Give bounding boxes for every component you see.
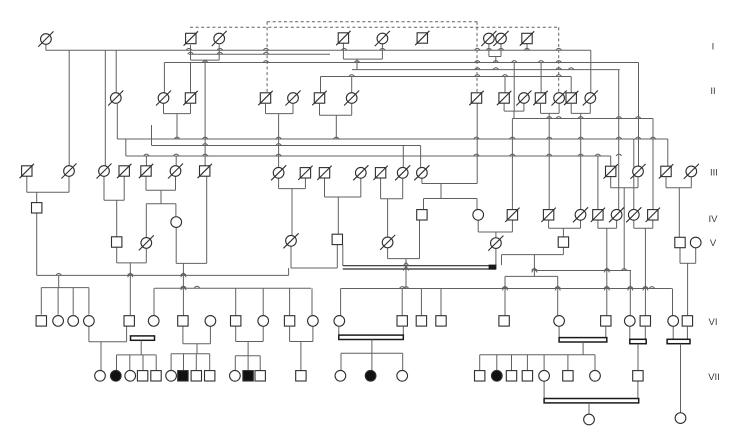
- wire feed IV-8: [597, 156, 599, 209]
- person VI-15: [416, 316, 426, 326]
- label generation V: [710, 238, 717, 249]
- wire consang bar VII-21 x VII-24: [544, 381, 639, 414]
- person VI-3: [68, 316, 79, 327]
- person VI-2: [53, 316, 64, 327]
- person VII-19: [506, 371, 516, 381]
- person II-12 deceased: [552, 91, 567, 106]
- wire couple VI-7 x VI-8: [183, 326, 211, 354]
- wire couple IV-4 x IV-5: [478, 220, 512, 237]
- person II-1 deceased: [108, 91, 123, 106]
- wire dashed drop to II-12: [558, 27, 560, 92]
- person VII-22: [563, 371, 573, 381]
- wire bus B7: [117, 104, 668, 166]
- person IV-3 male: [417, 210, 427, 220]
- wire couple V-6 x V-7: [502, 248, 564, 277]
- person IV-1 male: [32, 203, 42, 213]
- person VII-17: [475, 371, 485, 381]
- person VII-18 affected: [491, 370, 502, 381]
- wire sibship VI-7/8 children: [171, 354, 210, 371]
- person VIII-2 female: [675, 413, 686, 424]
- wire dashed link top B: [267, 21, 477, 23]
- person IV-6 deceased: [541, 208, 555, 222]
- person III-18 deceased: [684, 164, 699, 179]
- wire bus B3: [164, 61, 638, 166]
- person VI-19: [601, 316, 611, 326]
- person IV-7 deceased: [573, 207, 588, 222]
- wire feed couple II-9/10 junction: [513, 63, 515, 112]
- wire sibship VI-18/19 children: [480, 355, 595, 371]
- person III-17 deceased: [659, 164, 673, 178]
- wire couple II-11 x II-12: [541, 104, 560, 210]
- person V-6 deceased female: [488, 236, 503, 251]
- person II-10 deceased: [516, 91, 531, 106]
- person II-2 deceased: [156, 91, 171, 106]
- person VI-4: [84, 316, 95, 327]
- wire bus BL: [37, 274, 289, 276]
- person VII-5: [151, 371, 161, 381]
- wire II-8 descent: [476, 104, 478, 184]
- wire bus B6: [512, 117, 653, 210]
- person VI-14: [397, 316, 407, 326]
- person III-13 deceased: [395, 165, 410, 180]
- svg-text:VII: VII: [708, 372, 720, 383]
- person IV-10 deceased: [626, 207, 641, 222]
- person IV-4 female: [473, 209, 484, 220]
- person VII-15 affected: [365, 370, 376, 381]
- person III-8 deceased: [271, 165, 286, 180]
- person III-10 deceased: [317, 166, 331, 180]
- wire couple II-9 x II-10: [504, 104, 524, 119]
- person VII-21: [539, 370, 550, 381]
- person VII-12: [255, 371, 265, 381]
- wire couple II-13 x II-14: [571, 104, 590, 210]
- person VII-16: [397, 370, 408, 381]
- person V-9 female: [690, 237, 701, 248]
- person II-7 deceased: [344, 91, 359, 106]
- wire couple III-3 x III-4: [104, 177, 124, 237]
- wire couple III-8 x III-9: [279, 178, 306, 235]
- wire dashed link top A: [190, 26, 559, 28]
- wire couple I-7 x I-8: [489, 44, 501, 63]
- wire I-9 drop: [526, 44, 528, 50]
- svg-text:IV: IV: [709, 214, 719, 225]
- person II-14 deceased: [583, 91, 598, 106]
- wire feed VI-14: [401, 289, 403, 316]
- wire bus B9: [126, 139, 622, 166]
- person II-5 deceased: [285, 91, 300, 106]
- person I-3 deceased female: [212, 31, 227, 46]
- person V-8 male: [675, 237, 685, 247]
- person VII-3: [125, 370, 136, 381]
- person I-4 deceased male: [336, 31, 350, 45]
- wire feed III-2: [68, 50, 70, 166]
- person II-11 deceased: [533, 91, 547, 105]
- person IV-8 deceased: [591, 208, 605, 222]
- wire couple IV-2 x III-7: [176, 177, 207, 316]
- wire feed III-5: [145, 156, 147, 166]
- wire couple III-15 x III-16: [611, 177, 638, 271]
- wire bus BM1: [154, 286, 312, 315]
- wire bus B1: [46, 45, 591, 93]
- wire couple II-6 x II-7: [320, 104, 352, 139]
- person VII-11 affected: [243, 371, 253, 381]
- person VI-6: [148, 316, 159, 327]
- wire bus B2: [188, 52, 330, 54]
- person II-8 deceased: [469, 91, 483, 105]
- person VI-10: [258, 316, 269, 327]
- wire sibship V-6/7 children: [502, 276, 560, 315]
- person VII-2 affected: [110, 370, 121, 381]
- person VII-6: [166, 370, 177, 381]
- wire bus B8: [152, 125, 421, 167]
- person III-9 deceased: [298, 166, 312, 180]
- person VI-20: [624, 316, 635, 327]
- person III-16 deceased: [630, 164, 645, 179]
- person VII-7 affected: [178, 371, 188, 381]
- person III-1 deceased: [20, 164, 34, 178]
- person IV-9 deceased: [609, 207, 624, 222]
- person I-8 deceased female: [493, 31, 508, 46]
- wire sibship VI-13/14 children: [341, 353, 403, 371]
- person V-1 male: [112, 237, 122, 247]
- wire sibship III-5/6 children: [146, 204, 176, 238]
- wire couple IV-6 x IV-7: [549, 220, 581, 236]
- person II-3 deceased: [183, 91, 197, 105]
- label generation II: [710, 86, 715, 97]
- wire bus B4: [352, 68, 620, 210]
- wire consang bar VI-22 x VI-23: [667, 327, 690, 413]
- wire dashed drop to II-8: [476, 22, 478, 93]
- person IV-5 deceased: [505, 208, 519, 222]
- person IV-2 female: [171, 217, 182, 228]
- person VI-13: [334, 316, 345, 327]
- wire sibship VI-5/6 children: [117, 355, 157, 370]
- wire bus B5: [321, 75, 572, 93]
- svg-text:I: I: [712, 42, 715, 53]
- label generation III: [710, 168, 718, 179]
- person VI-1: [36, 316, 46, 326]
- wire feed II-11: [540, 63, 542, 93]
- person III-3 deceased: [97, 164, 112, 179]
- person VII-20: [522, 371, 532, 381]
- wire couple III-14 x II-8: [422, 178, 477, 198]
- person VII-4: [137, 371, 147, 381]
- person VI-23: [682, 316, 692, 326]
- person III-2 deceased: [61, 164, 76, 179]
- wire feed II-9: [504, 77, 506, 93]
- person IV-11 deceased: [646, 208, 660, 222]
- person VII-13: [296, 371, 306, 381]
- wire bus BM2: [341, 287, 673, 316]
- person VII-1: [95, 370, 106, 381]
- wire feed II-7: [351, 77, 353, 93]
- label generation I: [712, 42, 715, 53]
- person II-4 deceased: [258, 91, 272, 105]
- person V-2 deceased female: [139, 235, 154, 250]
- person VI-12: [308, 316, 319, 327]
- person VII-23: [590, 370, 601, 381]
- person V-3 deceased female: [283, 233, 298, 248]
- wire couple V-8 x V-9: [680, 248, 696, 316]
- person VI-21: [640, 316, 650, 326]
- svg-text:III: III: [710, 168, 718, 179]
- person I-5 deceased female: [375, 31, 390, 46]
- wire couple IV-10 x IV-11: [634, 220, 653, 315]
- person II-13 deceased: [564, 91, 578, 105]
- person III-7 deceased: [198, 164, 212, 178]
- wire couple V-1 x V-2: [117, 248, 147, 316]
- person VI-9: [231, 316, 241, 326]
- person I-6 deceased male: [415, 31, 429, 45]
- wire consang bar VI-5 x VI-6: [131, 336, 155, 355]
- wire couple III-10 x III-11: [325, 178, 361, 234]
- person VI-8: [205, 316, 216, 327]
- wire consang bar VI-20 x VI-21: [630, 327, 646, 371]
- person VI-11: [284, 316, 294, 326]
- wire dashed drop to II-4: [266, 22, 268, 93]
- svg-text:II: II: [710, 86, 715, 97]
- person VI-7: [178, 316, 188, 326]
- wire feed III-6: [175, 156, 177, 166]
- person III-15 deceased: [604, 164, 618, 178]
- wire couple V-3 x V-4: [289, 245, 338, 276]
- person V-4 male: [332, 234, 342, 244]
- person III-6 deceased: [168, 164, 183, 179]
- wire IV-1 descent: [36, 213, 38, 275]
- person I-9 deceased male: [520, 31, 534, 45]
- label generation VII: [708, 372, 720, 383]
- person VI-18: [554, 316, 565, 327]
- wire couple VI-9 x VI-10: [236, 327, 264, 356]
- person VII-9: [205, 371, 215, 381]
- person VI-16: [436, 316, 446, 326]
- wire couple VI-4 x VI-5: [89, 326, 127, 370]
- wire couple IV-8 x IV-9: [598, 220, 617, 315]
- wire sibship VI-9/10 children: [235, 356, 260, 371]
- person I-7 deceased female: [481, 31, 496, 46]
- person VII-24: [633, 371, 643, 381]
- wire consang bar VI-13 x VI-14: [339, 327, 404, 354]
- label generation VI: [709, 317, 718, 328]
- wire couple III-5 x III-6: [146, 177, 176, 204]
- wire couple V-5 x IV-3: [388, 220, 420, 288]
- wire bus BR1: [532, 269, 633, 316]
- svg-text:VI: VI: [709, 317, 718, 328]
- person VII-14: [335, 370, 346, 381]
- wire couple VI-11 x VI-12: [290, 327, 313, 371]
- person I-2 deceased male: [184, 31, 198, 45]
- person III-11 deceased: [353, 165, 368, 180]
- wire couple II-4 x II-5: [266, 104, 294, 168]
- person II-6 deceased: [312, 91, 326, 105]
- person I-1 deceased female: [38, 31, 53, 46]
- wire couple I-2 x I-3: [191, 45, 220, 166]
- wire couple II-2 x II-3: [164, 104, 191, 139]
- wire couple I-4 x I-5: [343, 44, 382, 70]
- person III-12 deceased: [373, 166, 387, 180]
- wire sibship III-14 children: [424, 199, 478, 210]
- person V-5 deceased female: [380, 235, 395, 250]
- wire feed IV-10: [633, 139, 635, 209]
- wire couple III-17 x III-18: [666, 177, 691, 237]
- person III-4 deceased: [117, 164, 131, 178]
- person VIII-1 female: [584, 414, 595, 425]
- person III-5 deceased: [139, 164, 153, 178]
- wire consang bar VI-18 x VI-19: [559, 327, 607, 355]
- wire couple III-1 x III-2: [27, 177, 69, 203]
- svg-text:V: V: [710, 238, 717, 249]
- person III-14 deceased: [414, 165, 429, 180]
- label generation IV: [709, 214, 719, 225]
- wire feed III-3: [104, 50, 106, 166]
- wire consang line V-4 x V-6: [343, 245, 497, 270]
- person VII-10: [230, 370, 241, 381]
- wire sibship far-left VI: [41, 275, 89, 314]
- person VI-5: [124, 316, 134, 326]
- person VI-17: [499, 316, 509, 326]
- person VII-8: [191, 371, 201, 381]
- wire couple III-12 x III-13: [381, 178, 403, 237]
- wire feed II-1: [115, 50, 117, 92]
- wire feed II-3: [190, 63, 192, 93]
- person II-9 deceased: [497, 91, 511, 105]
- person V-7 male: [558, 237, 568, 247]
- person VI-22: [668, 316, 679, 327]
